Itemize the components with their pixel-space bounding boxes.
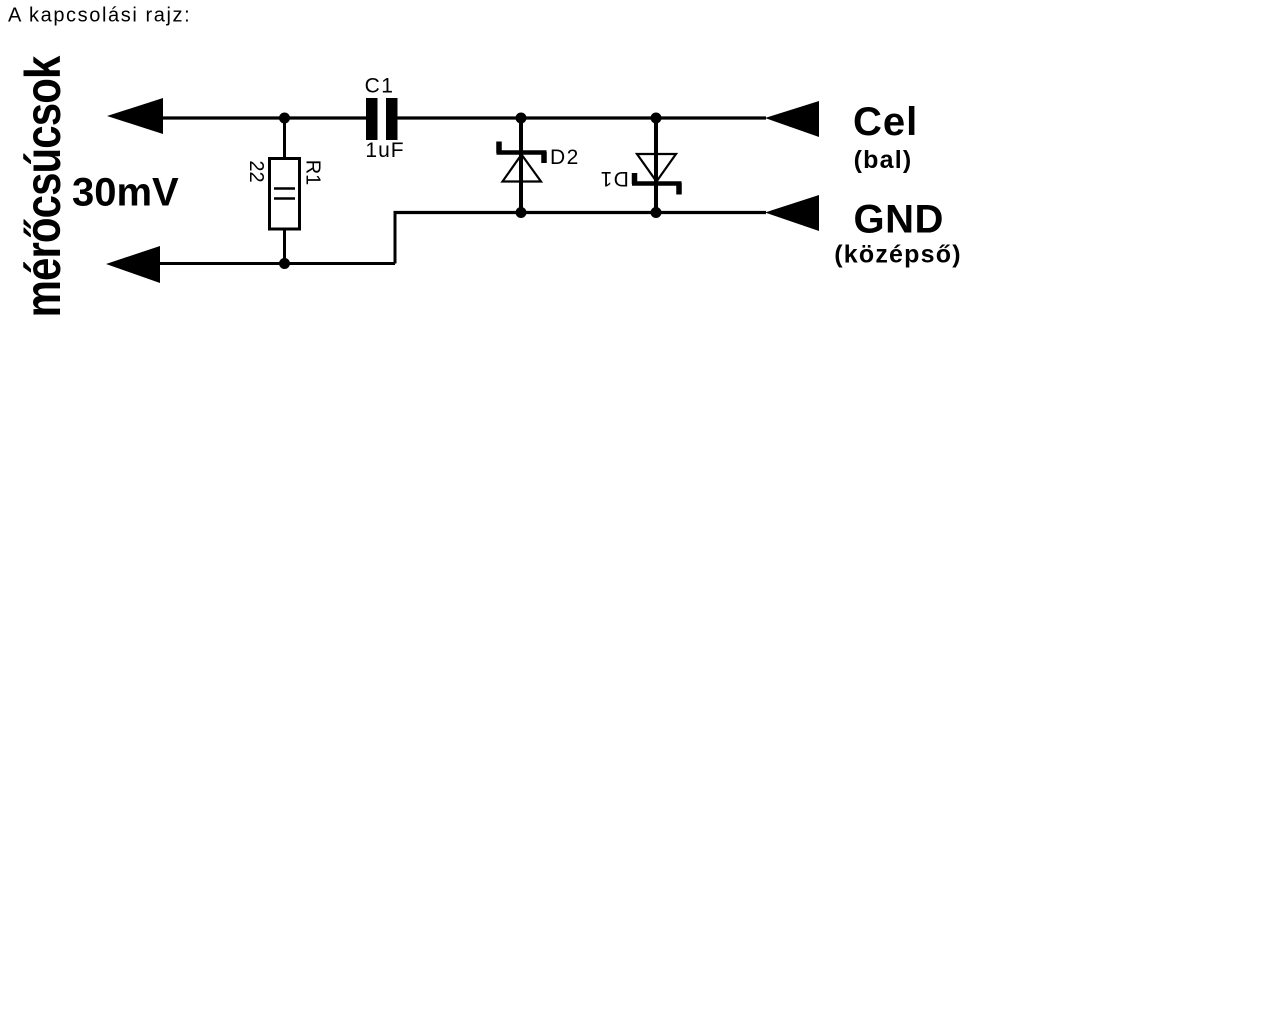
resistor R1 body [270,159,300,230]
node junction D2 top [516,113,527,124]
svg-text:A kapcsolási rajz:: A kapcsolási rajz: [8,5,191,27]
node junction D2 bottom [516,207,527,218]
probe arrow bottom-right [765,195,819,231]
probe arrow bottom-left [106,246,160,283]
svg-text:1uF: 1uF [365,139,404,162]
node junction D1 top [651,113,662,124]
svg-text:30mV: 30mV [72,171,179,215]
svg-text:D2: D2 [550,146,580,169]
wire middle (step to right arrow) [394,211,767,214]
capacitor C1 [366,98,398,140]
svg-text:22: 22 [245,160,267,182]
probe arrow top-left [107,98,163,134]
svg-text:R1: R1 [302,160,324,186]
svg-text:(középső): (középső) [834,241,961,269]
svg-text:GND: GND [854,198,944,242]
wire R1 bottom lead [283,229,286,264]
node junction D1 bottom [651,207,662,218]
wire step vertical [394,211,397,264]
svg-text:(bal): (bal) [854,146,913,174]
probe arrow top-right [765,101,819,137]
svg-text:Cel: Cel [853,100,918,144]
wire top (left arrow to C1) [163,116,366,119]
wire R1 top lead [283,118,286,159]
svg-text:D1: D1 [599,167,629,190]
svg-text:mérőcsúcsok: mérőcsúcsok [14,56,70,318]
diode D1 (zener, inverted) [632,154,682,195]
svg-text:C1: C1 [365,75,395,98]
wire top (C1 to right arrow) [397,116,766,119]
wire D1 vertical [654,118,658,213]
wire bottom-left [160,262,395,265]
diode D2 (zener) [497,142,547,182]
node junction bottom of R1 [279,258,290,269]
wire D2 vertical [519,118,523,213]
node junction top of R1 [279,113,290,124]
